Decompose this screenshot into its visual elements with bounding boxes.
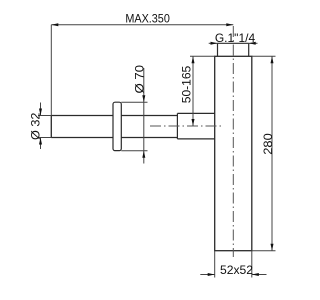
dimension 280 extension lines bbox=[252, 56, 276, 250]
dimension MAX.350 line bbox=[51, 24, 233, 26]
flange nut Ø70 bbox=[113, 102, 121, 150]
dimension G.1"1/4 arrows bbox=[209, 42, 258, 44]
node: vertical centerline of body bbox=[232, 26, 234, 257]
dimension Ø32 extension lines bbox=[38, 103, 51, 150]
svg-text:Ø 32: Ø 32 bbox=[28, 112, 42, 140]
dimension 52x52 bbox=[200, 251, 266, 278]
svg-text:52x52: 52x52 bbox=[220, 263, 253, 277]
node: horizontal centerline of pipe bbox=[150, 125, 224, 127]
svg-text:Ø 70: Ø 70 bbox=[132, 65, 146, 94]
svg-text:G.1"1/4: G.1"1/4 bbox=[215, 31, 256, 45]
body 52x52 tank bbox=[215, 56, 252, 250]
wire: MAX.350 extension line / pipe left face bbox=[50, 25, 52, 138]
dimension Ø70 extension lines bbox=[121, 68, 147, 164]
large pipe section into body bbox=[177, 113, 214, 138]
wire: small pipe Ø32 horizontal outlines bbox=[51, 116, 177, 138]
svg-text:MAX.350: MAX.350 bbox=[125, 12, 170, 26]
threaded stub G.1"1/4 bbox=[218, 43, 249, 56]
svg-text:50-165: 50-165 bbox=[180, 65, 194, 103]
dimension 50-165 bbox=[190, 56, 215, 126]
svg-text:280: 280 bbox=[261, 133, 275, 155]
